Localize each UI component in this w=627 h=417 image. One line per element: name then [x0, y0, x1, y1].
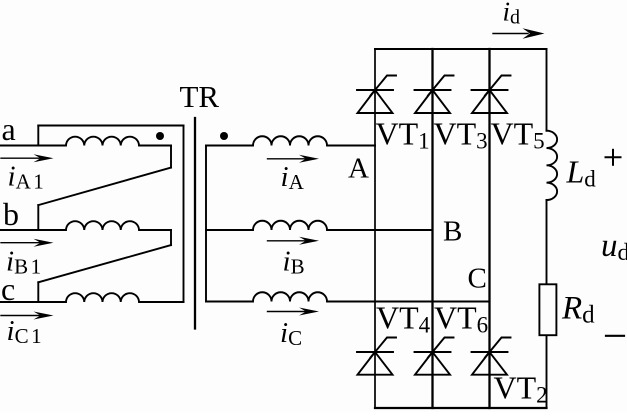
wire: delta right closure vertical: [183, 126, 185, 303]
svg-text:VT4: VT4: [376, 300, 431, 338]
transformer core bar: [194, 118, 196, 329]
wire: phase a input line: [0, 145, 38, 147]
polarity dot primary: [156, 132, 164, 140]
arrow iA1: [1, 154, 54, 162]
wire: bridge column 1: [374, 49, 376, 408]
wire: delta top closure line: [38, 125, 183, 127]
svg-text:iA1: iA1: [8, 161, 44, 194]
svg-text:VT2: VT2: [494, 370, 548, 408]
arrow id: [493, 28, 545, 39]
svg-text:C: C: [468, 263, 487, 295]
plus sign: [606, 150, 621, 165]
svg-text:ud: ud: [601, 228, 627, 266]
winding secondary C: [206, 292, 490, 301]
minus sign: [606, 335, 624, 337]
wire: phase b input line: [0, 229, 38, 231]
svg-text:VT5: VT5: [491, 116, 545, 154]
wire: phase c input line: [0, 301, 38, 303]
winding secondary A: [206, 136, 375, 145]
wire: terminal b vertical: [37, 205, 39, 230]
wire: winding a right drop: [170, 146, 172, 168]
svg-text:id: id: [503, 0, 521, 29]
wire: bridge column 3: [488, 49, 490, 408]
svg-text:Rd: Rd: [561, 291, 595, 329]
wire: load branch lower: [546, 335, 548, 408]
svg-text:TR: TR: [180, 79, 220, 114]
svg-text:iB: iB: [283, 246, 305, 279]
arrow iC1: [1, 312, 54, 320]
arrow iC: [268, 308, 320, 316]
wire: diagonal b to c: [38, 245, 171, 282]
arrow iA: [268, 155, 320, 163]
svg-text:iC: iC: [280, 317, 302, 350]
wire: load branch middle: [546, 200, 548, 284]
thyristor VT5: [472, 76, 511, 114]
svg-text:iA: iA: [281, 161, 305, 194]
wire: load branch upper: [546, 49, 548, 131]
svg-text:iC1: iC1: [7, 315, 42, 348]
polarity dot secondary: [220, 132, 228, 140]
thyristor VT4: [357, 338, 396, 375]
arrow iB: [268, 237, 320, 245]
resistor Rd: [539, 284, 556, 335]
svg-text:a: a: [2, 111, 16, 147]
thyristor VT1: [357, 76, 396, 114]
winding primary b: [38, 221, 171, 230]
wire: terminal c vertical: [37, 282, 39, 302]
wire: winding b right drop: [170, 230, 172, 245]
thyristor VT2: [472, 338, 511, 375]
wire: terminal a vertical: [37, 126, 39, 146]
svg-text:b: b: [3, 196, 19, 232]
wire: bridge top rail: [375, 48, 547, 50]
svg-text:VT3: VT3: [434, 116, 488, 154]
wire: diagonal a to b: [38, 168, 171, 206]
winding primary c: [38, 293, 183, 302]
inductor Ld: [547, 131, 558, 200]
wire: bridge bottom rail: [375, 407, 547, 409]
svg-text:VT6: VT6: [434, 300, 488, 338]
wire: bridge column 2: [431, 49, 433, 408]
winding secondary B: [206, 221, 433, 230]
svg-text:B: B: [443, 216, 462, 248]
svg-text:Ld: Ld: [566, 154, 597, 192]
svg-text:A: A: [348, 153, 369, 185]
arrow iB1: [1, 239, 54, 247]
svg-text:VT1: VT1: [376, 116, 430, 154]
thyristor VT6: [415, 338, 454, 375]
wire: secondary star vertical: [205, 146, 207, 302]
thyristor VT3: [415, 76, 454, 114]
winding primary a: [38, 137, 171, 146]
